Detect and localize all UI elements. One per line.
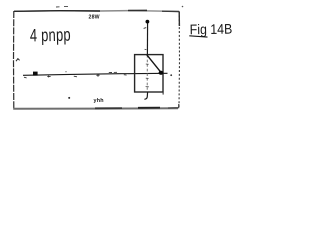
border frame top bbox=[14, 10, 179, 13]
dot right of rail end bbox=[170, 74, 172, 76]
tick mark plus x98 bbox=[96, 74, 99, 77]
collector dot bbox=[146, 20, 150, 24]
dot near top-right corner bbox=[182, 6, 184, 8]
tick mark w bbox=[24, 76, 27, 79]
arrowhead blob bbox=[159, 71, 164, 75]
node square blob on rail bbox=[33, 72, 38, 76]
svg-text:yhh: yhh bbox=[94, 98, 104, 104]
stray dot bottom left of box bbox=[68, 97, 70, 99]
tick on collector lead bbox=[144, 27, 147, 30]
tiny dot above rail x66 bbox=[65, 71, 66, 72]
svg-text:Fig 14B: Fig 14B bbox=[190, 21, 233, 38]
collector lead (top) bbox=[146, 20, 148, 55]
border frame bottom bbox=[13, 107, 178, 110]
svg-text:4 pnpp: 4 pnpp bbox=[30, 26, 71, 46]
node A arrow mark left bbox=[16, 59, 20, 62]
diagonal (emitter stroke) bbox=[147, 55, 161, 72]
lead inside box (faint) bbox=[146, 55, 148, 92]
border frame right bbox=[178, 12, 181, 109]
tick dashes above rail bbox=[109, 71, 117, 73]
transistor Q1 box bbox=[135, 55, 163, 92]
stray marks above top border bbox=[56, 5, 68, 8]
tick mark arrow x49 bbox=[47, 76, 50, 78]
tick mark x125 bbox=[124, 74, 127, 76]
tick mark x75 bbox=[74, 75, 77, 78]
border frame left bbox=[13, 11, 15, 109]
svg-text:28W: 28W bbox=[89, 15, 100, 21]
emitter lead below box with hook bbox=[144, 92, 147, 99]
wire horizontal rail bbox=[23, 73, 168, 75]
underline under Fig bbox=[189, 36, 207, 37]
label Fig 14B bbox=[190, 21, 233, 38]
